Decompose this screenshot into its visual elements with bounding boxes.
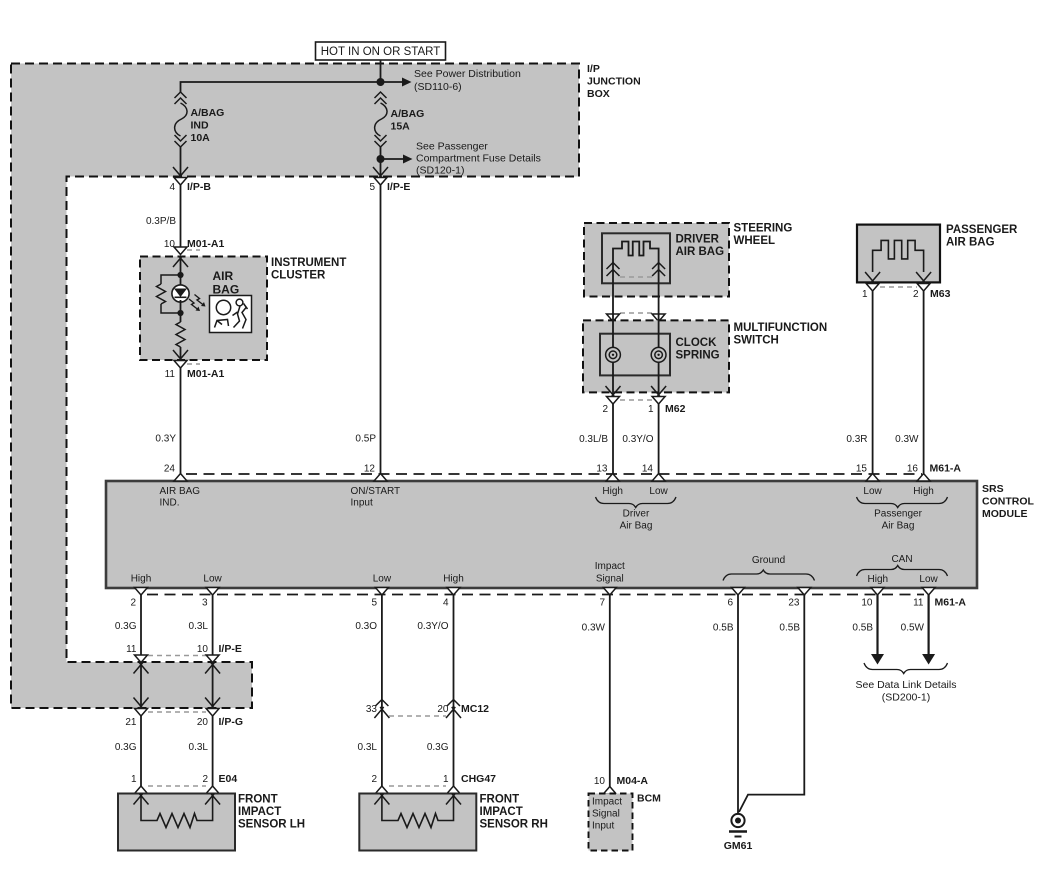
svg-text:MODULE: MODULE [982,508,1028,520]
svg-text:0.5B: 0.5B [779,623,800,634]
I/P junction box region (gray dashed L-shaped area) [11,64,579,709]
svg-text:See Power Distribution: See Power Distribution [414,68,521,80]
fuse A/BAG 15A [375,92,388,147]
svg-text:Low: Low [373,574,392,585]
light ray arrows [189,299,198,310]
svg-text:0.3W: 0.3W [582,623,606,634]
arrow See Power Distribution [381,81,403,83]
wire below fuse1 [180,147,182,177]
svg-text:FRONT: FRONT [238,794,278,806]
svg-text:CONTROL: CONTROL [982,496,1034,508]
svg-text:SENSOR RH: SENSOR RH [480,819,548,831]
svg-text:Air Bag: Air Bag [620,521,653,532]
svg-text:M61-A: M61-A [935,597,967,609]
wire into cluster [180,257,182,287]
svg-text:13: 13 [596,464,608,475]
svg-text:Impact: Impact [595,561,625,572]
node dot lower [177,310,183,316]
svg-text:M61-A: M61-A [930,463,962,475]
svg-text:Input: Input [351,498,373,509]
svg-text:STEERING: STEERING [734,223,793,235]
svg-text:21: 21 [125,717,137,728]
svg-text:High: High [868,574,889,585]
svg-text:High: High [131,574,152,585]
svg-text:4: 4 [169,182,175,193]
svg-text:IMPACT: IMPACT [480,806,523,818]
svg-text:0.3G: 0.3G [427,742,449,753]
svg-text:6: 6 [727,598,733,609]
svg-text:E04: E04 [219,773,238,785]
LED indicator lamp [172,285,189,302]
wire M01-A1 to SRS pin 24 [180,368,182,474]
svg-text:AIR BAG: AIR BAG [946,237,995,249]
connector M61-A bottom dashed line [147,594,924,596]
svg-text:BAG: BAG [213,283,240,297]
svg-text:0.3Y: 0.3Y [155,434,176,445]
svg-text:JUNCTION: JUNCTION [587,76,641,88]
svg-text:16: 16 [907,464,919,475]
svg-text:I/P-B: I/P-B [187,181,211,193]
passenger air bag squib [873,240,924,272]
wire I/P-E pin5 to SRS pin 12 [380,185,382,474]
svg-text:SWITCH: SWITCH [734,335,779,347]
svg-text:PASSENGER: PASSENGER [946,224,1018,236]
svg-text:23: 23 [788,598,800,609]
svg-text:A/BAG: A/BAG [391,108,425,120]
in-line connector steering to clock spring [620,312,652,314]
svg-text:DRIVER: DRIVER [676,234,720,246]
brace passenger [857,497,948,508]
svg-text:0.3L: 0.3L [189,621,209,632]
svg-text:5: 5 [369,182,375,193]
connector M63 [866,284,879,292]
svg-text:Low: Low [649,486,668,497]
svg-text:0.3O: 0.3O [355,621,377,632]
svg-text:33: 33 [366,704,378,715]
svg-text:10A: 10A [191,132,211,144]
squib terminal chevrons [607,263,620,270]
svg-text:0.3Y/O: 0.3Y/O [417,621,448,632]
svg-text:0.5B: 0.5B [852,623,873,634]
connector 11 M01-A1 [174,361,187,369]
svg-text:0.3P/B: 0.3P/B [146,216,176,227]
wire from HOT box to junction [380,60,382,82]
driver air bag box [602,233,670,283]
svg-text:2: 2 [202,774,208,785]
wire horizontal feed to fuse A/BAG IND [181,82,381,92]
svg-text:BCM: BCM [637,793,661,805]
clock spring spiral right [651,347,666,362]
BCM dashed box [589,794,633,851]
svg-text:High: High [602,486,623,497]
svg-text:IND.: IND. [160,498,180,509]
svg-text:CAN: CAN [891,554,912,565]
ground GM61 [731,814,744,827]
connector M62 [607,397,620,405]
arrow See Passenger Compartment Fuse Details [381,158,404,160]
resistor in series [176,322,185,347]
chevron entering cluster [173,256,188,267]
entry chevrons sensor LH [134,794,149,805]
svg-text:CHG47: CHG47 [461,773,496,785]
svg-text:SRS: SRS [982,483,1004,495]
svg-text:7: 7 [599,598,605,609]
svg-text:AIR BAG: AIR BAG [676,246,725,258]
svg-text:Signal: Signal [592,809,620,820]
svg-text:Low: Low [203,574,222,585]
svg-text:0.3L: 0.3L [189,742,209,753]
node junction dot top [377,78,385,86]
svg-text:FRONT: FRONT [480,794,520,806]
svg-text:0.3L: 0.3L [358,742,378,753]
svg-text:HOT IN ON OR START: HOT IN ON OR START [321,46,440,58]
svg-text:11: 11 [126,644,137,655]
svg-text:CLOCK: CLOCK [676,337,718,349]
exit chevrons clock spring [606,386,621,397]
svg-text:0.3R: 0.3R [846,434,867,445]
svg-text:0.3L/B: 0.3L/B [579,434,608,445]
svg-text:11: 11 [165,369,176,380]
front impact sensor LH box [118,794,235,851]
svg-text:0.5W: 0.5W [901,623,925,634]
svg-text:2: 2 [602,404,608,415]
svg-text:10: 10 [594,776,606,787]
svg-text:(SD120-1): (SD120-1) [416,165,464,177]
svg-text:MULTIFUNCTION: MULTIFUNCTION [734,322,828,334]
connector 33/20 MC12 [375,700,388,707]
svg-text:I/P: I/P [587,63,600,75]
svg-text:20: 20 [197,717,209,728]
svg-text:Low: Low [919,574,938,585]
entry chevrons sensor RH [374,794,389,805]
svg-text:0.3W: 0.3W [895,434,919,445]
wires SRS pins 5,4 down [381,595,383,787]
wire between dots [180,300,182,322]
svg-text:IMPACT: IMPACT [238,806,281,818]
steering wheel dashed box [584,223,729,297]
wire SRS pin 7 to BCM [609,595,611,787]
svg-text:High: High [913,486,934,497]
chevron exiting cluster [173,350,188,361]
connector M61-A top dashed line [186,473,922,475]
sensor RH internal resistor [382,794,454,828]
svg-text:SPRING: SPRING [676,350,720,362]
squib exit chevrons [865,272,880,283]
svg-text:2: 2 [371,774,377,785]
top pin triangles [174,474,187,482]
front impact sensor RH box [359,794,476,851]
svg-text:GM61: GM61 [724,840,753,852]
brace data link [864,663,948,674]
svg-text:1: 1 [443,774,449,785]
svg-text:I/P-G: I/P-G [219,716,244,728]
svg-text:24: 24 [164,464,176,475]
svg-text:WHEEL: WHEEL [734,235,776,247]
svg-text:M01-A1: M01-A1 [187,368,225,380]
svg-text:Signal: Signal [596,574,624,585]
fuse A/BAG IND 10A [175,92,188,147]
chevron exit junction box wire1 [173,167,188,178]
connector 4 I/P-B [174,178,187,186]
SRS control module box [106,481,977,588]
instrument cluster box [140,257,267,361]
svg-text:I/P-E: I/P-E [219,643,242,655]
svg-text:SENSOR LH: SENSOR LH [238,819,305,831]
svg-text:2: 2 [130,598,136,609]
sensor LH internal resistor [141,794,213,828]
multifunction switch dashed box [583,320,729,392]
svg-text:2: 2 [913,289,919,300]
svg-text:MC12: MC12 [461,703,489,715]
svg-text:5: 5 [371,598,377,609]
svg-text:10: 10 [197,644,209,655]
svg-text:M63: M63 [930,288,951,300]
svg-text:0.3G: 0.3G [115,621,137,632]
wire SRS pin 11 data link [927,595,929,654]
wires M62 to SRS pins 13/14 [612,404,614,474]
wires I/P-G to E04 [140,716,142,787]
wires SRS pins 2,3 down [140,595,142,656]
svg-text:15A: 15A [391,121,411,133]
wires through clock spring [612,311,614,396]
svg-text:20: 20 [437,704,449,715]
svg-text:10: 10 [861,598,873,609]
svg-text:0.3G: 0.3G [115,742,137,753]
wire driver airbag to clock spring left [612,277,614,311]
svg-text:High: High [443,574,464,585]
node junction dot lower [377,155,385,163]
wire I/P-B to M01-A1 [180,185,182,248]
svg-text:14: 14 [642,464,654,475]
svg-text:Driver: Driver [623,509,650,520]
svg-text:M62: M62 [665,403,686,415]
chevron exit junction box wire2 [373,167,388,178]
svg-text:Compartment Fuse Details: Compartment Fuse Details [416,153,541,165]
svg-text:3: 3 [202,598,208,609]
resistor shunt branch left [161,275,181,284]
svg-text:AIR: AIR [213,269,234,283]
wire SRS pin 23 to ground [739,595,804,812]
svg-text:10: 10 [164,239,176,250]
svg-text:CLUSTER: CLUSTER [271,270,326,282]
wire below fuse2 [380,147,382,177]
bottom pin triangles [135,588,148,596]
svg-text:Input: Input [592,821,614,832]
wires M63 to SRS pins 15/16 [872,291,874,474]
svg-text:See Passenger: See Passenger [416,141,488,153]
clock spring box [600,334,670,376]
svg-text:Air Bag: Air Bag [882,521,915,532]
svg-text:I/P-E: I/P-E [387,181,410,193]
svg-text:4: 4 [443,598,449,609]
wire SRS pin 10 data link [876,595,878,654]
svg-text:15: 15 [856,464,868,475]
svg-text:INSTRUMENT: INSTRUMENT [271,257,346,269]
svg-text:(SD110-6): (SD110-6) [414,81,462,93]
svg-text:AIR BAG: AIR BAG [160,486,201,497]
svg-text:IND: IND [191,120,210,132]
wire SRS pin 6 to ground [737,595,739,814]
svg-text:Ground: Ground [752,555,785,566]
svg-text:Passenger: Passenger [874,509,922,520]
svg-text:11: 11 [913,598,924,609]
svg-text:12: 12 [364,464,376,475]
air bag warning icon [210,296,252,333]
wires through junction-box band [134,663,149,674]
svg-text:Low: Low [863,486,882,497]
svg-text:BOX: BOX [587,88,610,100]
wire to exit [180,347,182,361]
svg-text:Impact: Impact [592,797,622,808]
svg-text:0.5B: 0.5B [713,623,734,634]
svg-text:0.3Y/O: 0.3Y/O [622,434,653,445]
svg-text:(SD200-1): (SD200-1) [882,692,930,704]
brace driver [596,497,677,508]
node dot upper [177,272,183,278]
passenger air bag box [857,225,940,283]
HOT IN ON OR START box [316,42,446,60]
svg-text:1: 1 [648,404,654,415]
svg-text:See Data Link Details: See Data Link Details [856,679,957,691]
connector 21/20 I/P-G [135,709,148,717]
driver air bag squib [613,242,659,278]
clock spring spiral left [606,347,621,362]
svg-text:1: 1 [862,289,868,300]
svg-text:M04-A: M04-A [617,775,649,787]
svg-text:M01-A1: M01-A1 [187,238,225,250]
svg-text:0.5P: 0.5P [355,434,376,445]
svg-text:1: 1 [131,774,137,785]
svg-text:A/BAG: A/BAG [191,107,225,119]
connector 5 I/P-E [374,178,387,186]
svg-text:ON/START: ON/START [351,486,401,497]
